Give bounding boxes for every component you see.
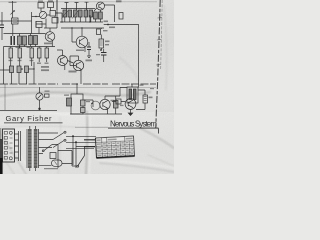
wire (68, 56, 82, 84)
capacitor C10 polarity (101, 53, 107, 56)
wire feedback loop (104, 25, 139, 88)
label Nervous System (110, 120, 157, 129)
resistor R6 (52, 18, 58, 24)
IF can pair A (18, 36, 22, 45)
battery B1 (52, 160, 63, 166)
resistor R4 (48, 2, 54, 8)
resistor R22 (143, 95, 148, 103)
pin wires (15, 134, 19, 158)
wire (72, 147, 95, 167)
label Gary Fisher (4, 114, 63, 123)
wire (72, 28, 85, 52)
node M (76, 83, 78, 85)
wire (88, 42, 90, 56)
node G (56, 12, 57, 13)
capacitor C6 (11, 36, 14, 45)
wire (70, 84, 92, 114)
wire (57, 0, 62, 28)
trimmer capacitor C2 (39, 11, 46, 18)
resistor R17 (25, 66, 29, 73)
wire (20, 34, 36, 49)
IF can pair B (29, 36, 33, 45)
resistor R21 (81, 108, 86, 113)
wire (30, 126, 36, 171)
node H (61, 21, 62, 22)
transistor Q8 (125, 99, 136, 110)
resistor R8 (9, 48, 13, 58)
wire (0, 62, 34, 84)
resistor R12 (45, 48, 49, 58)
IF transformer pair 2 (74, 10, 78, 17)
node I (71, 27, 72, 28)
resistor R24 (50, 153, 56, 159)
wire (92, 96, 122, 114)
wire (39, 145, 73, 169)
antenna (9, 1, 17, 11)
ground (87, 56, 91, 58)
resistor R10 (30, 48, 34, 58)
wire (94, 5, 115, 22)
wire (73, 136, 76, 168)
main bus wire (0, 83, 156, 85)
resistor R1 (12, 18, 19, 24)
wire (41, 0, 57, 12)
wire (39, 164, 73, 169)
switch S3 (44, 145, 52, 151)
wire (4, 84, 6, 110)
resistor R11 (38, 48, 42, 58)
wire (57, 50, 65, 70)
transistor Q4 (58, 56, 68, 66)
transistor Q5 (73, 60, 83, 70)
capacitor C1 (0, 25, 4, 28)
node E (75, 141, 77, 143)
transformer T1 (27, 129, 39, 168)
wire (61, 27, 90, 29)
resistor R5 (50, 11, 56, 17)
resistor R19 (45, 94, 50, 97)
wire (2, 12, 32, 40)
wire (39, 87, 41, 110)
wire (60, 17, 103, 22)
relay K2 (127, 87, 138, 103)
node L (33, 68, 34, 69)
wire (84, 100, 93, 107)
vcc rail marks (65, 2, 89, 10)
node B (21, 68, 23, 70)
wire (66, 136, 96, 148)
voltage table (96, 136, 135, 158)
wire (32, 13, 63, 28)
node D (72, 135, 74, 137)
wire (0, 11, 32, 21)
border line (0, 109, 57, 111)
switch S1 (53, 133, 64, 140)
fold edge line right (156, 0, 160, 128)
IF transformer pair 1 (63, 10, 67, 17)
node N (35, 16, 36, 17)
wire (4, 28, 46, 34)
frame top line (0, 1, 157, 3)
wire (112, 101, 125, 103)
capacitor C4 (99, 12, 103, 19)
resistor R23 (116, 99, 121, 104)
capacitor C3 (94, 12, 98, 19)
paper background (0, 0, 174, 174)
capacitor C9 (87, 47, 91, 50)
resistor R3 (38, 3, 44, 9)
wire (39, 133, 59, 148)
bottom-left circuit block (3, 126, 97, 171)
IC U1 (3, 129, 15, 162)
meter M1 (36, 93, 43, 100)
wire (4, 47, 47, 85)
scan edge dark strip (0, 128, 3, 174)
capacitor C12 (114, 101, 119, 109)
resistor R13 (99, 39, 104, 48)
node K (89, 21, 90, 22)
wire (90, 15, 100, 22)
connector J1 (19, 131, 21, 161)
transistor Q2 (45, 32, 55, 42)
grain (0, 0, 174, 174)
wire (115, 96, 117, 114)
capacitor C11 (67, 98, 72, 106)
resistor R7 (36, 22, 42, 28)
border line right section (75, 126, 108, 128)
transistor Q3 (76, 36, 88, 48)
resistor R20 (81, 100, 86, 106)
output frame K1 (71, 94, 83, 114)
capacitor C5 (119, 13, 123, 20)
resistor R15 (10, 66, 14, 73)
resistor R14 (97, 29, 101, 35)
resistor R16 (17, 66, 21, 73)
wire (90, 28, 104, 50)
tiny value labels (smudges) (9, 0, 155, 106)
switch S4 (78, 156, 85, 166)
wire (61, 8, 95, 10)
wire (120, 84, 145, 110)
IF transformer pair 3 (84, 10, 88, 17)
node A (107, 24, 109, 26)
transistor Q7 (100, 99, 110, 109)
ground (128, 109, 132, 115)
transistor Q6 (91, 101, 100, 110)
wire (4, 28, 58, 47)
resistor R9 (18, 48, 22, 58)
node F (38, 108, 40, 110)
node J (81, 27, 82, 28)
transistor Q1 (97, 2, 105, 10)
switch S2 (53, 141, 64, 148)
